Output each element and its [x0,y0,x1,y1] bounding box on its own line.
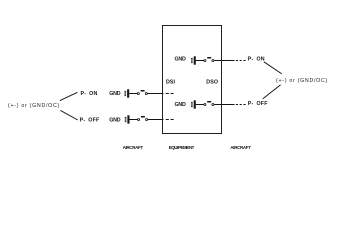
svg-text:DSO: DSO [206,80,218,86]
svg-text:P- OFF: P- OFF [248,101,268,107]
svg-text:EQUIPEMENT: EQUIPEMENT [169,145,195,150]
svg-text:(+-) or (GND/OC): (+-) or (GND/OC) [276,78,328,84]
svg-text:P- ON: P- ON [81,91,98,97]
svg-text:P- OFF: P- OFF [80,117,100,123]
svg-text:AIRCRAFT: AIRCRAFT [230,145,251,150]
svg-text:GND: GND [109,91,121,97]
svg-text:P- ON: P- ON [248,57,265,63]
svg-text:(+-) or (GND/OC): (+-) or (GND/OC) [8,103,60,109]
svg-text:GND: GND [175,56,187,62]
svg-text:GND: GND [109,117,121,123]
svg-text:DSI: DSI [166,80,176,86]
svg-text:AIRCRAFT: AIRCRAFT [123,145,144,150]
svg-text:GND: GND [175,102,187,108]
